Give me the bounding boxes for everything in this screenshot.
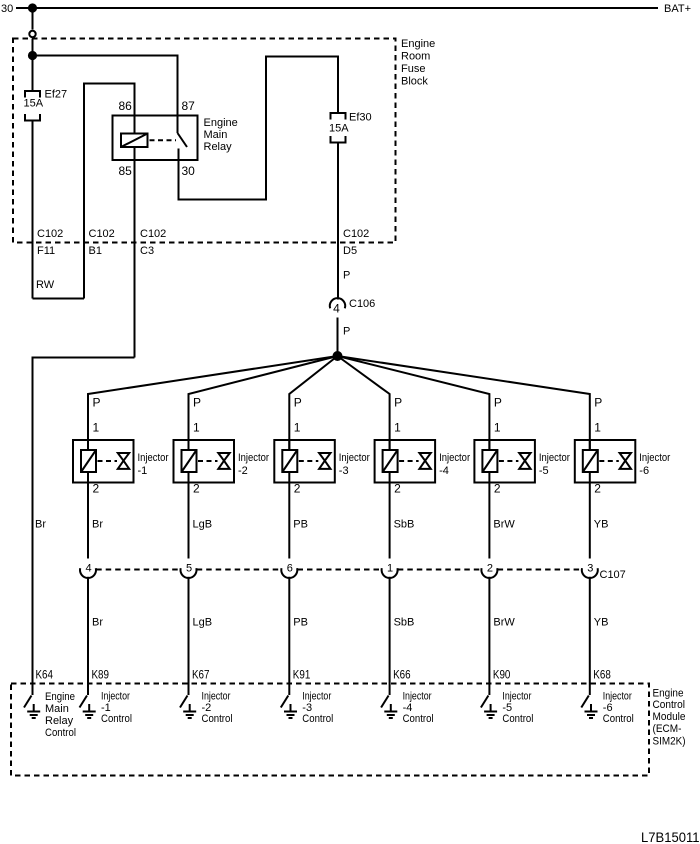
wire color label YB upper — [594, 519, 609, 531]
injector U3 actuation dashed link — [299, 460, 319, 462]
svg-text:Injector: Injector — [439, 452, 470, 464]
wire Ef30 to C102 D5 — [337, 143, 339, 300]
pin 30 label — [182, 164, 196, 178]
ground symbol K89 — [83, 704, 96, 718]
svg-text:-4: -4 — [439, 465, 449, 477]
injector U5 name label — [539, 452, 570, 477]
svg-text:30: 30 — [182, 164, 196, 178]
wire injector 2 control (LgB) to C107 — [188, 483, 190, 559]
svg-text:Module: Module — [653, 711, 686, 723]
injector U4 box — [375, 440, 436, 483]
wire BrW from C107 to ECM K90 — [488, 577, 490, 695]
svg-text:Injector: Injector — [639, 452, 670, 464]
svg-text:4: 4 — [333, 302, 340, 316]
pin K67 label — [192, 668, 210, 682]
injector U3 name label — [339, 452, 370, 477]
svg-text:K68: K68 — [593, 668, 611, 682]
svg-text:Control: Control — [603, 713, 634, 725]
fuse Ef27 15A — [25, 91, 40, 98]
pin 2 injector 5 — [494, 482, 501, 496]
wire C102 B1 up and over to relay pin 86 — [84, 84, 135, 299]
node P wire label injector 2 — [193, 396, 201, 410]
pin 85 label — [119, 164, 133, 178]
injector U1 actuation dashed link — [98, 460, 118, 462]
svg-text:P: P — [494, 396, 502, 410]
wire injector 4 feed from C106 splice — [338, 356, 390, 450]
svg-text:K89: K89 — [92, 668, 110, 682]
wire color label LgB lower — [193, 617, 213, 629]
svg-text:-1: -1 — [138, 465, 148, 477]
ECM label Injector -3 Control — [302, 691, 333, 725]
injector U2 actuation dashed link — [198, 460, 218, 462]
pin K68 label — [593, 668, 611, 682]
wire Br from C107 to ECM K89 — [87, 577, 89, 695]
engine room fuse block label — [401, 38, 435, 88]
connector C106 pin 4 — [330, 298, 375, 316]
ECM driver switch blade K90 — [481, 696, 489, 708]
wire color label Br lower — [92, 617, 103, 629]
wire color label P above C106 — [343, 270, 350, 282]
pin 1 injector 1 — [93, 421, 100, 435]
pin 87 label — [182, 99, 196, 113]
svg-text:Ef27: Ef27 — [45, 89, 68, 101]
svg-text:Injector: Injector — [502, 691, 531, 703]
injector U1 valve (hourglass) — [118, 453, 129, 469]
relay coil — [121, 134, 148, 148]
injector U5 valve (hourglass) — [519, 453, 530, 469]
injector U4 name label — [439, 452, 470, 477]
relay coil-to-switch dashed link — [150, 139, 177, 141]
svg-text:SbB: SbB — [394, 519, 415, 531]
svg-text:Injector: Injector — [339, 452, 370, 464]
svg-text:K91: K91 — [293, 668, 311, 682]
svg-text:SIM2K): SIM2K) — [653, 736, 686, 748]
injector U1 box — [73, 440, 134, 483]
svg-text:Ef30: Ef30 — [349, 112, 372, 124]
svg-text:C107: C107 — [600, 569, 626, 581]
svg-text:15A: 15A — [329, 123, 349, 135]
svg-text:Fuse: Fuse — [401, 63, 425, 75]
svg-text:BAT+: BAT+ — [664, 3, 691, 15]
wire relay pin 85 to C102 C3 — [134, 147, 136, 358]
svg-text:1: 1 — [494, 421, 501, 435]
wire injector 5 feed from C106 splice — [338, 356, 490, 450]
pin 1 injector 4 — [394, 421, 401, 435]
pin 2 injector 1 — [93, 482, 100, 496]
svg-text:K66: K66 — [393, 668, 411, 682]
ECM label Injector -5 Control — [502, 691, 533, 725]
pin 1 injector 5 — [494, 421, 501, 435]
pin 1 injector 3 — [294, 421, 301, 435]
wire PB from C107 to ECM K91 — [288, 577, 290, 695]
svg-text:Br: Br — [92, 617, 103, 629]
injector U2 name label — [238, 452, 269, 477]
wire color label SbB upper — [394, 519, 415, 531]
wire color label BrW upper — [493, 519, 515, 531]
injector U2 valve (hourglass) — [218, 453, 229, 469]
wire injector 3 control (PB) to C107 — [288, 483, 290, 559]
svg-text:K67: K67 — [192, 668, 210, 682]
injector U6 box — [575, 440, 636, 483]
ECM driver switch blade K68 — [581, 696, 589, 708]
injector U2 box — [174, 440, 235, 483]
injector U3 valve (hourglass) — [319, 453, 330, 469]
svg-text:2: 2 — [494, 482, 501, 496]
wire joining RW (F11) to B1 — [33, 298, 85, 300]
wire injector 6 coil internal — [589, 440, 591, 483]
wire YB from C107 to ECM K68 — [589, 577, 591, 695]
wire color label YB lower — [594, 617, 609, 629]
svg-text:Injector: Injector — [138, 452, 169, 464]
svg-text:RW: RW — [36, 279, 55, 291]
svg-text:D5: D5 — [343, 245, 357, 257]
ECM module name label — [653, 688, 686, 748]
injector U4 actuation dashed link — [399, 460, 419, 462]
ECM label Injector -6 Control — [603, 691, 634, 725]
svg-text:2: 2 — [394, 482, 401, 496]
wire to relay pin 87 — [33, 56, 178, 116]
node 30 (battery feed) label — [1, 3, 13, 15]
ECM driver switch blade K91 — [281, 696, 289, 708]
wire injector 5 coil internal — [488, 440, 490, 483]
svg-text:4: 4 — [85, 563, 91, 575]
connector C102 pin D5 — [343, 228, 369, 257]
svg-text:YB: YB — [594, 617, 609, 629]
svg-text:30: 30 — [1, 3, 13, 15]
svg-text:Engine: Engine — [204, 117, 238, 129]
svg-text:2: 2 — [93, 482, 100, 496]
wire LgB from C107 to ECM K67 — [188, 577, 190, 695]
pin 1 injector 2 — [193, 421, 200, 435]
ground symbol K68 — [585, 704, 598, 718]
wire BAT+ bus — [16, 7, 658, 9]
node P wire label injector 4 — [394, 396, 402, 410]
svg-text:5: 5 — [186, 563, 192, 575]
svg-text:C102: C102 — [343, 228, 369, 240]
svg-text:-3: -3 — [339, 465, 349, 477]
svg-text:Engine: Engine — [401, 38, 435, 50]
svg-text:1: 1 — [93, 421, 100, 435]
wire battery drop to fuse block — [32, 8, 34, 91]
pin K91 label — [293, 668, 311, 682]
connector C102 pin F11 — [37, 228, 63, 257]
engine room fuse block dashed box — [13, 39, 396, 243]
svg-text:Injector: Injector — [202, 691, 231, 703]
svg-text:Relay: Relay — [45, 715, 74, 727]
svg-text:1: 1 — [394, 421, 401, 435]
svg-text:Injector: Injector — [539, 452, 570, 464]
pin 2 injector 4 — [394, 482, 401, 496]
wire injector 3 feed from C106 splice — [289, 356, 337, 450]
fuse Ef30 label — [349, 112, 372, 124]
connector C102 pin B1 — [89, 228, 115, 257]
svg-text:Control: Control — [653, 699, 686, 711]
svg-text:Control: Control — [45, 727, 76, 739]
svg-text:Br: Br — [35, 519, 46, 531]
svg-text:K64: K64 — [36, 668, 54, 682]
connector C107 pin 2 — [481, 563, 497, 578]
wire injector 4 coil internal — [389, 440, 391, 483]
svg-text:85: 85 — [119, 164, 133, 178]
wire injector 5 control (BrW) to C107 — [488, 483, 490, 559]
injector U6 actuation dashed link — [599, 460, 619, 462]
wire C106 to splice — [337, 318, 339, 357]
junction to relay pin 87 branch — [29, 52, 36, 59]
injector U6 valve (hourglass) — [620, 453, 631, 469]
svg-text:Relay: Relay — [204, 141, 233, 153]
figure number L7B15011 — [641, 829, 700, 844]
svg-text:Injector: Injector — [603, 691, 632, 703]
svg-text:3: 3 — [587, 563, 593, 575]
wire Ef27 to C102 F11 (RW) — [32, 121, 34, 299]
ECM driver switch blade K67 — [180, 696, 188, 708]
svg-text:C106: C106 — [349, 298, 375, 310]
svg-text:2: 2 — [487, 563, 493, 575]
injector U6 name label — [639, 452, 670, 477]
svg-text:P: P — [343, 326, 350, 338]
pin K66 label — [393, 668, 411, 682]
relay name label — [204, 117, 238, 153]
ECM driver switch blade K66 — [381, 696, 389, 708]
svg-text:P: P — [394, 396, 402, 410]
svg-text:PB: PB — [293, 617, 308, 629]
wire injector 1 control (Br) to C107 — [87, 483, 89, 559]
ECM driver switch blade K64 — [24, 696, 32, 708]
pin K89 label — [92, 668, 110, 682]
ECM label Injector -1 Control — [101, 691, 132, 725]
pin 2 injector 3 — [294, 482, 301, 496]
svg-text:2: 2 — [193, 482, 200, 496]
svg-text:P: P — [93, 396, 101, 410]
svg-text:P: P — [294, 396, 302, 410]
ECM dashed box — [11, 684, 649, 776]
pin K64 label — [36, 668, 54, 682]
svg-text:Block: Block — [401, 76, 428, 88]
svg-text:P: P — [193, 396, 201, 410]
svg-text:Control: Control — [403, 713, 434, 725]
wire injector 2 coil internal — [188, 440, 190, 483]
svg-text:F11: F11 — [37, 245, 55, 257]
svg-text:1: 1 — [387, 563, 393, 575]
svg-text:Injector: Injector — [302, 691, 331, 703]
pin 2 injector 6 — [594, 482, 601, 496]
svg-text:LgB: LgB — [193, 617, 213, 629]
injector U2 coil — [182, 450, 197, 472]
connector C107 pin 1 — [382, 563, 398, 578]
ground symbol K90 — [484, 704, 497, 718]
svg-text:Br: Br — [92, 519, 103, 531]
junction on BAT+ bus — [29, 4, 36, 11]
wire color label Br upper — [92, 519, 103, 531]
injector U1 coil — [81, 450, 96, 472]
svg-text:C102: C102 — [37, 228, 63, 240]
wire SbB from C107 to ECM K66 — [389, 577, 391, 695]
svg-text:LgB: LgB — [193, 519, 213, 531]
wire injector 6 control (YB) to C107 — [589, 483, 591, 559]
injector U3 box — [274, 440, 335, 483]
svg-text:Control: Control — [202, 713, 233, 725]
svg-text:BrW: BrW — [493, 617, 515, 629]
node P wire label injector 5 — [494, 396, 502, 410]
node P wire label injector 1 — [93, 396, 101, 410]
svg-text:Control: Control — [502, 713, 533, 725]
injector U5 coil — [482, 450, 497, 472]
connector C102 pin C3 — [140, 228, 166, 257]
svg-text:Room: Room — [401, 51, 430, 63]
fuse Ef30 15A — [331, 113, 346, 120]
svg-text:Injector: Injector — [403, 691, 432, 703]
svg-text:Injector: Injector — [238, 452, 269, 464]
connector C107 dashed body line — [96, 569, 581, 571]
injector U5 actuation dashed link — [499, 460, 519, 462]
svg-text:15A: 15A — [24, 98, 44, 110]
connector C107 pin 3 — [582, 563, 598, 578]
node P wire label injector 3 — [294, 396, 302, 410]
svg-text:(ECM-: (ECM- — [653, 723, 682, 735]
node P wire label injector 6 — [594, 396, 602, 410]
svg-text:PB: PB — [293, 519, 308, 531]
wire color label Br for K64 wire — [35, 519, 46, 531]
svg-text:C3: C3 — [140, 245, 154, 257]
pin 2 injector 2 — [193, 482, 200, 496]
wire color label P below C106 — [343, 326, 350, 338]
svg-text:K90: K90 — [493, 668, 511, 682]
injector U4 coil — [383, 450, 398, 472]
svg-text:Injector: Injector — [101, 691, 130, 703]
wire injector 1 coil internal — [87, 440, 89, 483]
wire color label PB upper — [293, 519, 308, 531]
svg-text:1: 1 — [294, 421, 301, 435]
splice junction feeding all injectors — [334, 352, 342, 360]
svg-text:1: 1 — [594, 421, 601, 435]
fuse Ef27 label — [45, 89, 68, 101]
wire injector 2 feed from C106 splice — [189, 356, 338, 450]
node BAT+ label — [664, 3, 691, 15]
svg-text:2: 2 — [594, 482, 601, 496]
svg-text:L7B15011: L7B15011 — [641, 829, 700, 844]
svg-text:87: 87 — [182, 99, 196, 113]
injector U5 box — [474, 440, 535, 483]
ground symbol K91 — [284, 704, 297, 718]
wire C3 across to ECM K64 drop — [33, 358, 135, 696]
svg-text:2: 2 — [294, 482, 301, 496]
svg-text:-5: -5 — [539, 465, 549, 477]
ground symbol K67 — [183, 704, 196, 718]
wire injector 1 feed from C106 splice — [88, 356, 338, 450]
pin 1 injector 6 — [594, 421, 601, 435]
svg-text:-2: -2 — [238, 465, 248, 477]
connector C107 pin 4 — [80, 563, 96, 578]
injector U4 valve (hourglass) — [419, 453, 430, 469]
svg-text:B1: B1 — [89, 245, 102, 257]
svg-text:1: 1 — [193, 421, 200, 435]
svg-text:P: P — [343, 270, 350, 282]
svg-text:Engine: Engine — [45, 691, 75, 703]
pin K90 label — [493, 668, 511, 682]
wire relay pin 30 loop to fuse Ef30 — [179, 57, 339, 200]
wire color label SbB lower — [394, 617, 415, 629]
svg-text:-6: -6 — [639, 465, 649, 477]
wire RW color label — [36, 279, 55, 291]
wire injector 4 control (SbB) to C107 — [389, 483, 391, 559]
ECM label Injector -4 Control — [403, 691, 434, 725]
pin 86 label — [119, 99, 133, 113]
svg-text:BrW: BrW — [493, 519, 515, 531]
ground symbol K64 — [27, 704, 40, 718]
svg-text:Control: Control — [101, 713, 132, 725]
wire color label LgB upper — [193, 519, 213, 531]
svg-text:YB: YB — [594, 519, 609, 531]
svg-text:Main: Main — [45, 703, 69, 715]
svg-text:Engine: Engine — [653, 688, 684, 700]
connector C107 label — [600, 569, 626, 581]
wire injector 3 coil internal — [288, 440, 290, 483]
injector U6 coil — [583, 450, 598, 472]
svg-text:Main: Main — [204, 129, 228, 141]
injector U3 coil — [282, 450, 297, 472]
relay switch blade — [178, 116, 188, 148]
svg-text:C102: C102 — [89, 228, 115, 240]
connector C107 pin 6 — [281, 563, 297, 578]
svg-text:86: 86 — [119, 99, 133, 113]
ground symbol K66 — [384, 704, 397, 718]
injector U1 name label — [138, 452, 169, 477]
svg-text:6: 6 — [287, 563, 293, 575]
splice (open circle) at fuse block entry — [29, 31, 35, 37]
connector C107 pin 5 — [180, 563, 196, 578]
ECM label Engine Main Relay Control — [45, 691, 76, 739]
wire color label PB lower — [293, 617, 308, 629]
ECM driver switch blade K89 — [80, 696, 88, 708]
wire color label BrW lower — [493, 617, 515, 629]
svg-text:C102: C102 — [140, 228, 166, 240]
wire injector 6 feed from C106 splice — [338, 356, 590, 450]
ECM label Injector -2 Control — [202, 691, 233, 725]
svg-text:SbB: SbB — [394, 617, 415, 629]
relay K1 box — [113, 116, 198, 161]
svg-text:Control: Control — [302, 713, 333, 725]
svg-text:P: P — [594, 396, 602, 410]
